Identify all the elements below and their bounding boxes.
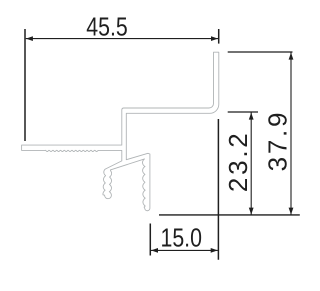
ext line left 45.5 bbox=[24, 29, 26, 141]
svg-text:15.0: 15.0 bbox=[160, 223, 201, 253]
dim line 23.2 bbox=[250, 113, 252, 215]
tick 23.2 bbox=[228, 111, 258, 113]
ext line right 45.5 bbox=[218, 29, 220, 44]
ext line right 15.0 bbox=[217, 119, 219, 260]
tick 37.9 bbox=[228, 51, 293, 53]
dim line 45.5 bbox=[26, 38, 218, 40]
profile outline bbox=[22, 52, 219, 211]
svg-text:37.9: 37.9 bbox=[263, 110, 293, 172]
bottom reference line bbox=[159, 214, 300, 216]
svg-text:23.2: 23.2 bbox=[223, 130, 253, 192]
svg-text:45.5: 45.5 bbox=[86, 13, 127, 43]
ext line left 15.0 bbox=[149, 224, 151, 256]
dim line 15.0 bbox=[151, 249, 218, 251]
dim line 37.9 bbox=[290, 53, 292, 215]
